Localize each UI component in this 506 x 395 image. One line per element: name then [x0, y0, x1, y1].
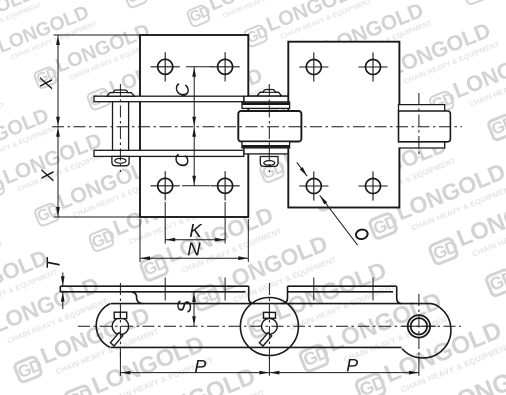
middle pin cotter hole [264, 161, 275, 166]
dimension X (lower) label [41, 169, 53, 182]
dimension S [193, 292, 195, 327]
left joint vertical centerline [119, 283, 121, 358]
right bushing bar top [399, 105, 445, 111]
left pin cotter hole [115, 158, 126, 163]
left attachment platform top surface [60, 285, 248, 287]
middle roller (top view) [238, 111, 301, 142]
right joint vertical centerline [418, 294, 420, 358]
dimension K [164, 202, 166, 244]
attachment bolt hole at (165.2,66.8) [151, 52, 180, 81]
dimension N [139, 219, 141, 262]
attachment bolt hole at (225.1,185.8) [211, 171, 240, 200]
middle cotter leg [259, 333, 271, 346]
attachment bolt hole at (225.1,66.8) [211, 52, 240, 81]
dimension P extension lines [119, 352, 121, 376]
left pin cotter plate [112, 156, 129, 165]
dimension X (upper) [57, 35, 59, 217]
right roller (top view) [399, 111, 451, 142]
attachment bolt hole at (313.8,67.0) [299, 52, 328, 81]
left joint pin circle [112, 318, 128, 334]
hole diameter leader (lower segment) [320, 195, 358, 245]
left attachment bend riser [131, 292, 143, 304]
attachment bolt hole at (313.8,186.0) [299, 171, 328, 200]
side view hole tick marks [164, 278, 166, 301]
right roller contour arc (side view) [402, 308, 451, 358]
right platform end edge and bend [397, 286, 403, 304]
dimension P (right pitch) label [347, 359, 358, 371]
middle roller circle (side view) [240, 298, 298, 356]
attachment bolt hole at (165.2,185.8) [151, 171, 180, 200]
dimension P (left pitch) [120, 372, 419, 374]
middle pin rivet head [257, 90, 282, 96]
top view chain centerline [52, 126, 462, 128]
middle pin bushing flange (top) [242, 102, 290, 108]
middle pin washer (bottom) [244, 148, 288, 154]
left cotter leg [110, 333, 122, 346]
left pin rivet head [107, 90, 135, 96]
left link top plate bar (edge view) [94, 96, 244, 102]
left pin centerline [119, 84, 121, 172]
left attachment platform bottom surface [60, 291, 245, 293]
chain plate bottom edge (side view) [111, 346, 402, 348]
left attachment plate [140, 35, 248, 217]
dimension C (upper) label [176, 83, 189, 95]
left pin body [113, 102, 129, 151]
right pin centerline (top view) [418, 93, 420, 158]
X extension line top (plate top edge extended) [54, 34, 141, 36]
attachment bolt hole at (373.0,67.0) [358, 52, 387, 81]
chain plate left end arc [96, 304, 110, 348]
scallop left edge (left platform end) [249, 286, 255, 303]
dimension T [62, 273, 64, 287]
hole diameter leader (upper segment) [297, 162, 307, 176]
dimension C line [193, 67, 195, 186]
middle pin centerline [268, 84, 270, 172]
chain plate top edge (side view) [111, 303, 431, 305]
right joint bushing ring [408, 315, 430, 337]
left link bottom plate bar (edge view) [94, 150, 244, 156]
middle joint vertical centerline [268, 283, 270, 360]
left platform left end edge [59, 286, 61, 292]
side view chain centerline [78, 325, 461, 327]
roller link plate bottom edge between attachment plates [248, 153, 288, 155]
attachment bolt hole at (373.0,186.0) [358, 171, 387, 200]
right attachment platform top surface [288, 285, 397, 287]
middle pin cotter plate [260, 157, 278, 167]
middle joint pin circle [262, 319, 278, 335]
right bushing bar bottom [399, 142, 445, 148]
roller link plate top edge between attachment plates [248, 95, 288, 97]
right attachment plate [288, 42, 399, 208]
right joint crosshair horizontal [402, 325, 436, 327]
right attachment platform bottom surface [288, 291, 394, 293]
middle pin bushing flange (bottom) [242, 142, 290, 148]
middle cotter head [264, 312, 276, 318]
plate top edge bend into right roller [431, 304, 441, 308]
dimension C (lower) label [175, 154, 188, 166]
right joint pin circle [411, 318, 427, 334]
label O (hole diameter) [355, 228, 368, 240]
X extension line bottom (plate bottom edge extended) [54, 216, 141, 218]
scallop right edge (right platform start) [282, 286, 288, 303]
middle pin washer (top) [244, 96, 288, 102]
left cotter head [114, 312, 127, 318]
